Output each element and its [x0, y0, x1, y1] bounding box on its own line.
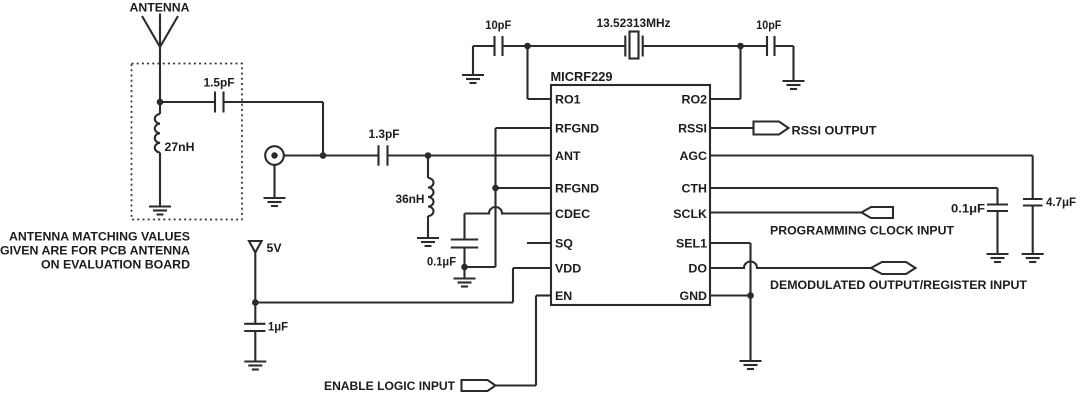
svg-text:EN: EN: [555, 289, 572, 303]
svg-text:VDD: VDD: [555, 262, 581, 276]
svg-text:1μF: 1μF: [268, 320, 288, 334]
svg-text:0.1μF: 0.1μF: [951, 202, 985, 216]
svg-text:ENABLE LOGIC INPUT: ENABLE LOGIC INPUT: [324, 379, 455, 393]
svg-text:CDEC: CDEC: [555, 207, 590, 221]
svg-text:0.1μF: 0.1μF: [427, 255, 456, 269]
svg-text:10pF: 10pF: [485, 18, 511, 32]
svg-text:RSSI OUTPUT: RSSI OUTPUT: [792, 124, 877, 138]
svg-text:5V: 5V: [267, 241, 283, 255]
svg-text:SEL1: SEL1: [676, 237, 707, 251]
svg-text:GND: GND: [679, 289, 707, 303]
svg-text:13.52313MHz: 13.52313MHz: [597, 16, 671, 30]
svg-text:ANTENNA: ANTENNA: [130, 1, 190, 15]
svg-text:ON EVALUATION BOARD: ON EVALUATION BOARD: [41, 258, 190, 272]
svg-text:AGC: AGC: [679, 149, 707, 163]
svg-text:MICRF229: MICRF229: [551, 69, 613, 84]
svg-text:36nH: 36nH: [396, 192, 425, 206]
svg-text:RO1: RO1: [555, 93, 581, 107]
svg-text:SQ: SQ: [555, 237, 573, 251]
svg-text:RFGND: RFGND: [555, 122, 599, 136]
svg-text:RFGND: RFGND: [555, 182, 599, 196]
svg-text:4.7μF: 4.7μF: [1046, 195, 1076, 209]
svg-text:PROGRAMMING CLOCK INPUT: PROGRAMMING CLOCK INPUT: [770, 224, 954, 238]
svg-text:10pF: 10pF: [756, 18, 781, 32]
svg-text:RO2: RO2: [682, 93, 708, 107]
svg-text:27nH: 27nH: [165, 140, 195, 154]
svg-text:CTH: CTH: [682, 182, 708, 196]
svg-text:ANT: ANT: [555, 149, 581, 163]
svg-text:SCLK: SCLK: [673, 207, 707, 221]
svg-text:1.5pF: 1.5pF: [204, 76, 235, 90]
svg-text:RSSI: RSSI: [678, 122, 707, 136]
svg-text:1.3pF: 1.3pF: [369, 127, 400, 141]
svg-text:DEMODULATED OUTPUT/REGISTER IN: DEMODULATED OUTPUT/REGISTER INPUT: [770, 278, 1027, 292]
svg-text:GIVEN ARE FOR PCB ANTENNA: GIVEN ARE FOR PCB ANTENNA: [0, 244, 190, 258]
svg-text:DO: DO: [688, 262, 707, 276]
svg-text:ANTENNA MATCHING VALUES: ANTENNA MATCHING VALUES: [9, 230, 190, 244]
